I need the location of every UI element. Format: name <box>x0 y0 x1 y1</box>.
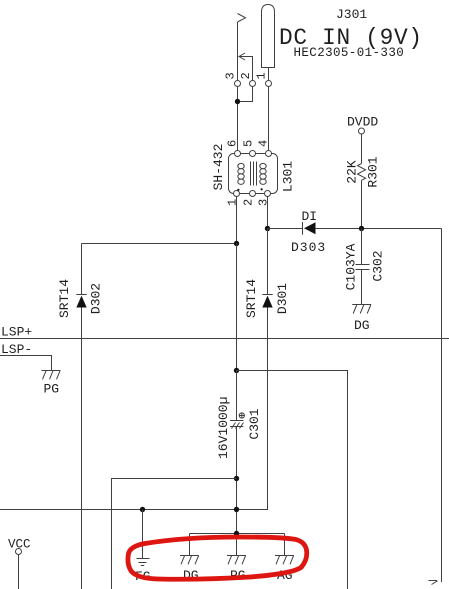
svg-text:3: 3 <box>224 72 238 79</box>
svg-text:22K: 22K <box>345 160 360 184</box>
svg-text:DVDD: DVDD <box>347 114 378 129</box>
wire into C301 <box>236 371 238 421</box>
wire net LSP- <box>0 356 52 371</box>
ground PG at LSP- <box>42 371 61 380</box>
L301 left winding <box>238 163 244 184</box>
svg-text:SH-432: SH-432 <box>211 144 226 191</box>
wire branch left corner down <box>112 479 237 589</box>
L301 pin 4 <box>266 151 272 157</box>
ground AG bottom <box>275 556 294 565</box>
svg-text:D302: D302 <box>89 283 104 314</box>
wire junction down to C302 <box>361 229 363 265</box>
wire jack pin3 top with chevron <box>238 14 246 23</box>
L301 core lines <box>250 162 252 186</box>
wire AG stub <box>284 534 286 556</box>
L301 phase dot left <box>237 189 239 191</box>
capacitor C301 electrolytic <box>230 421 244 429</box>
C301 polarity mark <box>239 413 244 418</box>
svg-text:R301: R301 <box>366 156 381 187</box>
wire DG stub <box>189 534 191 556</box>
junction C301 top branch <box>234 368 239 373</box>
svg-text:LSP-: LSP- <box>1 342 32 357</box>
junction y478 <box>234 476 239 481</box>
junction main line y509 <box>234 507 239 512</box>
ground DG under C302 <box>352 305 371 314</box>
wire FG stub down <box>142 510 144 559</box>
wire D301 anode down <box>237 308 268 510</box>
wire main 9V rail horizontal <box>268 228 303 230</box>
wire ground bus y509 <box>0 509 268 511</box>
junction L301 pin1 / D302 <box>234 241 239 246</box>
off-page arrow <box>429 581 438 585</box>
svg-text:LSP+: LSP+ <box>1 325 32 340</box>
svg-text:SRT14: SRT14 <box>57 279 72 318</box>
wire rail corner down right side <box>441 229 443 583</box>
pin 3 of J301 <box>235 81 241 87</box>
svg-text:DG: DG <box>354 318 370 333</box>
wire C301 bottom down <box>236 427 238 556</box>
svg-text:4: 4 <box>257 140 271 147</box>
resistor R301 <box>358 164 366 181</box>
wire jack pin3 down to L301 pin 6 <box>237 87 239 151</box>
diode D302 <box>81 244 83 295</box>
annotation red circle around grounds <box>128 537 307 579</box>
svg-text:PG: PG <box>44 382 60 397</box>
ground FG earth symbol <box>137 559 150 566</box>
L301 phase dot right <box>261 188 263 190</box>
svg-text:5: 5 <box>241 140 255 147</box>
capacitor C302 <box>356 264 370 266</box>
wire jack pin1 down to L301 pin 4 <box>268 87 270 151</box>
junction R301 / C302 / rail <box>359 226 364 231</box>
diode D303 <box>302 222 304 235</box>
wire L301 pin3 down <box>267 197 269 229</box>
diode D301 <box>267 229 269 295</box>
svg-text:C302: C302 <box>370 250 385 281</box>
L301 pin 5 <box>250 151 256 157</box>
L301 pin 1 <box>234 191 240 197</box>
node DVDD terminal <box>359 128 365 134</box>
wire DVDD to R301 <box>361 134 363 164</box>
svg-text:D301: D301 <box>275 283 290 314</box>
junction jack pins 2-3 <box>235 99 240 104</box>
common-mode choke L301 body <box>229 154 278 194</box>
svg-text:6: 6 <box>225 140 239 147</box>
wire ground link y533 <box>190 533 285 535</box>
L301 pin 6 <box>235 151 241 157</box>
wire net LSP+ <box>0 338 449 340</box>
svg-text:C301: C301 <box>247 408 262 439</box>
junction FG stub <box>140 507 145 512</box>
wire jack switch arm with arrow <box>240 57 253 81</box>
ground PG bottom <box>227 556 246 565</box>
svg-text:D303: D303 <box>291 240 326 255</box>
L301 right winding <box>260 163 266 184</box>
pin 2 of J301 <box>250 81 256 87</box>
svg-text:J301: J301 <box>336 7 367 22</box>
wire jack pin1 to barrel <box>268 68 270 81</box>
wire branch right and down to bottom <box>237 371 348 589</box>
svg-text:16V1000µ: 16V1000µ <box>216 397 231 459</box>
wire jack pin2 down joining pin3 net <box>238 87 253 102</box>
svg-text:3: 3 <box>257 199 271 206</box>
wire L301 pin1 net down to LSP area <box>236 244 238 371</box>
wire R301 down to junction <box>361 180 363 228</box>
svg-text:2: 2 <box>239 72 253 79</box>
svg-text:DI: DI <box>302 209 318 224</box>
wire C302 to ground <box>361 270 363 305</box>
junction L301 pin3 / D303 / D301 <box>265 226 270 231</box>
pin 1 of J301 <box>266 81 272 87</box>
svg-text:C103YA: C103YA <box>343 243 358 290</box>
junction y533 <box>234 531 239 536</box>
wire L301 pin1 down <box>236 197 238 244</box>
wire D302 anode down to bottom edge <box>81 308 83 589</box>
svg-text:SRT14: SRT14 <box>244 279 259 318</box>
svg-text:1: 1 <box>225 199 239 206</box>
node VCC terminal <box>16 549 22 555</box>
L301 pin 2 <box>250 191 256 197</box>
wire junction to D302 <box>82 243 237 245</box>
ground DG bottom <box>180 556 199 565</box>
svg-text:2: 2 <box>241 199 255 206</box>
svg-text:HEC2305-01-330: HEC2305-01-330 <box>294 46 405 60</box>
L301 pin 3 <box>265 191 271 197</box>
wire VCC down <box>18 555 20 589</box>
svg-text:L301: L301 <box>281 161 296 192</box>
svg-text:1: 1 <box>255 72 269 79</box>
connector J301 barrel symbol <box>262 5 275 68</box>
